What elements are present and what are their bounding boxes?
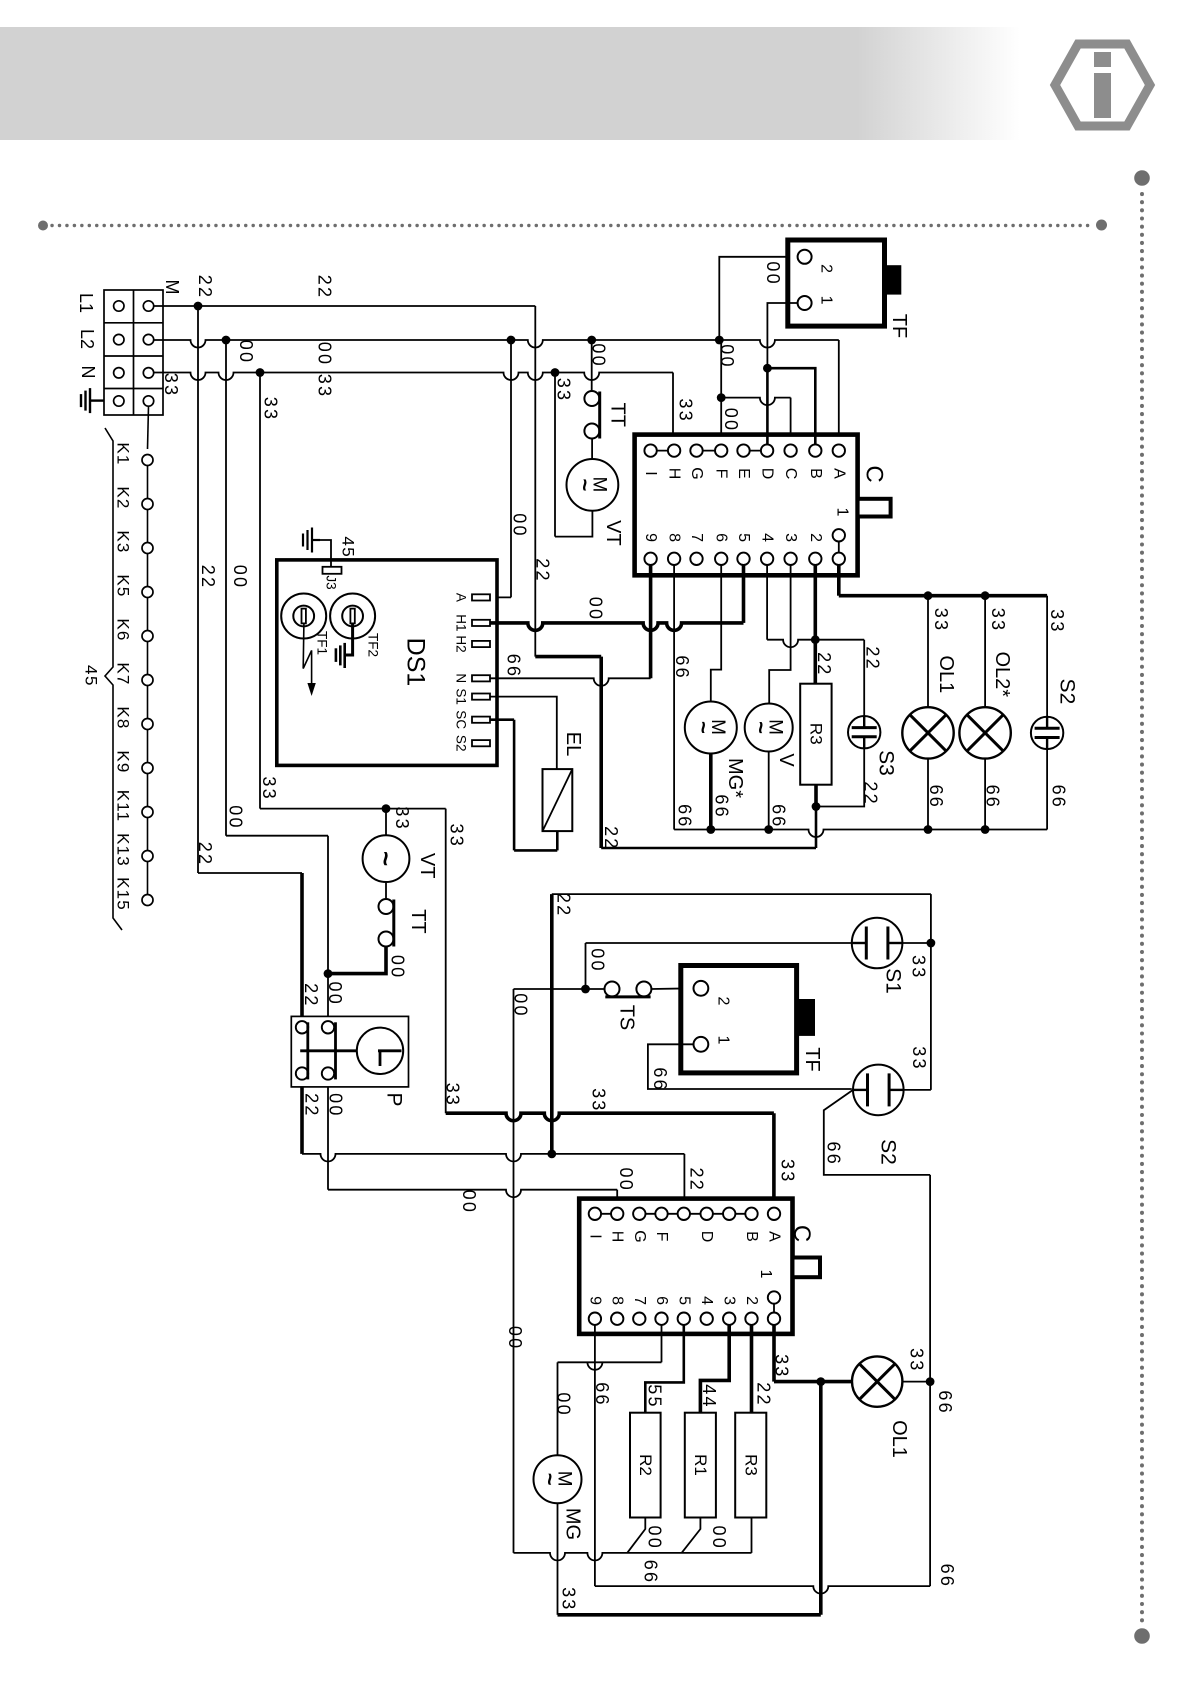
junction 33 bottom: [816, 1377, 825, 1386]
DS1 pin SC: [472, 717, 490, 723]
svg-text:6: 6: [713, 533, 730, 542]
svg-text:R2: R2: [636, 1454, 655, 1476]
wire 33 bus bottom: [558, 1613, 821, 1617]
TF1 discharge arrow: [303, 623, 311, 683]
svg-text:V: V: [775, 753, 797, 767]
svg-text:2: 2: [807, 533, 824, 542]
header gray gradient bar: [0, 27, 1020, 140]
svg-text:R3: R3: [741, 1454, 760, 1476]
wire MG* bottom: [709, 754, 713, 830]
P diaphragm: [357, 1028, 403, 1074]
svg-text:8: 8: [609, 1296, 626, 1305]
svg-text:H2: H2: [454, 635, 469, 652]
thermal fuse TF2 keyhole: [330, 594, 375, 639]
svg-text:A: A: [830, 468, 847, 479]
capacitor S2 top: [1031, 717, 1063, 749]
junction 00 a: [222, 336, 231, 345]
svg-text:33: 33: [261, 397, 281, 421]
junction pin F: [717, 393, 726, 402]
wire TT2 to junction: [328, 947, 386, 974]
DS1 pin S2: [472, 740, 490, 746]
svg-text:22: 22: [863, 646, 883, 670]
svg-text:44: 44: [699, 1384, 719, 1408]
svg-text:00: 00: [763, 261, 783, 285]
svg-text:S2: S2: [877, 1139, 900, 1165]
R1 diagonal: [682, 1518, 701, 1553]
svg-text:66: 66: [504, 654, 524, 678]
K chain contacts K1-K15: [142, 455, 153, 466]
junction 66 MG*: [706, 825, 715, 834]
TF2 pin 2: [694, 981, 709, 996]
svg-text:66: 66: [937, 1564, 957, 1588]
svg-text:B: B: [743, 1231, 760, 1242]
wire pin9-2 down: [594, 1325, 596, 1586]
TF pin 1: [798, 296, 812, 310]
svg-text:33: 33: [554, 378, 574, 402]
svg-text:66: 66: [824, 1141, 844, 1165]
wire 22 to P: [198, 872, 302, 874]
thermal fuse TF1 keyhole: [281, 594, 326, 639]
svg-text:00: 00: [459, 1190, 479, 1214]
svg-text:00: 00: [230, 565, 250, 589]
wire VT to 33: [555, 511, 592, 537]
junction pin2 pin4: [811, 635, 820, 644]
wire 00 branch pin F: [720, 340, 722, 445]
wire 22 to pinD2: [302, 1154, 684, 1162]
ground symbol at terminal: [90, 399, 104, 401]
svg-text:2: 2: [743, 1296, 760, 1305]
svg-text:C: C: [788, 1225, 815, 1242]
svg-text:66: 66: [712, 794, 732, 818]
svg-text:33: 33: [443, 1083, 463, 1107]
motor VT: [567, 459, 619, 511]
svg-text:33: 33: [259, 776, 279, 800]
svg-text:OL1: OL1: [935, 655, 957, 693]
junction R3 bottom: [812, 802, 821, 811]
motor MG*: [685, 702, 737, 754]
svg-text:C: C: [782, 468, 799, 480]
wire OL1b right: [902, 1381, 930, 1383]
svg-text:K13: K13: [114, 833, 133, 867]
wire pin8 down: [673, 565, 675, 830]
wire pin4 to S3: [766, 565, 768, 640]
svg-text:S2: S2: [1056, 679, 1079, 705]
wire OL2 col: [984, 596, 986, 708]
wire 00 long drop: [513, 989, 515, 1553]
svg-text:TF: TF: [801, 1047, 823, 1071]
svg-text:SC: SC: [454, 710, 469, 729]
wire S2m 66 path: [824, 1090, 930, 1175]
wire 66 bus bottom: [595, 1586, 930, 1594]
svg-text:F: F: [653, 1232, 670, 1242]
wire 22 drop right: [534, 306, 536, 657]
timer DS1 box: [277, 560, 497, 766]
motor MG: [534, 1455, 582, 1503]
svg-text:L1: L1: [76, 293, 96, 313]
svg-text:66: 66: [641, 1560, 661, 1584]
svg-text:66: 66: [672, 655, 692, 679]
svg-text:33: 33: [447, 823, 467, 847]
connector C2 tab: [793, 1258, 821, 1278]
svg-text:66: 66: [769, 804, 789, 828]
svg-text:66: 66: [983, 785, 1003, 809]
svg-text:M: M: [162, 280, 182, 295]
svg-text:33: 33: [909, 1046, 929, 1070]
pressure switch P box: [291, 1016, 408, 1087]
thermal cutout TT2: [379, 899, 394, 914]
svg-text:TF: TF: [888, 314, 910, 338]
connector C1 body: [635, 435, 858, 576]
svg-text:22: 22: [861, 781, 881, 805]
svg-text:2: 2: [818, 264, 835, 273]
svg-text:TT: TT: [407, 909, 429, 933]
svg-text:OL1: OL1: [888, 1420, 910, 1458]
svg-text:66: 66: [675, 804, 695, 828]
svg-text:K8: K8: [114, 706, 133, 729]
wire 33 to pin H: [672, 373, 674, 445]
junction 00 b: [507, 336, 516, 345]
junction 00 c: [587, 336, 596, 345]
heater EL: [543, 769, 573, 831]
svg-text:K11: K11: [114, 790, 133, 823]
svg-text:OL2*: OL2*: [991, 652, 1013, 698]
wire R3 bottom stub: [814, 785, 818, 807]
lamp OL1: [902, 707, 953, 758]
wire MG bottom: [557, 1503, 559, 1615]
wire S1 right link: [902, 942, 931, 944]
connector C1 tab: [858, 499, 891, 517]
wire pin2 to R3: [813, 565, 817, 684]
svg-text:1: 1: [715, 1036, 732, 1045]
wire VT2 to TT2: [385, 882, 387, 899]
svg-text:22: 22: [532, 558, 552, 582]
svg-text:33: 33: [909, 955, 929, 979]
info icon hexagon: [1055, 44, 1150, 126]
resistor R1: [685, 1413, 716, 1518]
junction 22: [194, 302, 203, 311]
junction 66 OL1: [924, 825, 933, 834]
junction 33 b: [551, 368, 560, 377]
C1 links: [651, 450, 675, 452]
wire 22 left drop: [197, 306, 199, 873]
wire pin1 to OL1b: [772, 1325, 776, 1382]
svg-text:00: 00: [709, 1525, 729, 1549]
svg-text:K5: K5: [114, 574, 133, 597]
svg-text:66: 66: [935, 1390, 955, 1414]
DS1 pin S1: [472, 694, 490, 700]
svg-text:00: 00: [721, 408, 741, 432]
DS1 pin A: [472, 594, 490, 600]
svg-text:00: 00: [717, 344, 737, 368]
svg-text:45: 45: [82, 665, 101, 687]
svg-text:7: 7: [688, 533, 705, 542]
motor V: [745, 704, 793, 752]
svg-text:4: 4: [698, 1296, 715, 1305]
DS1 pin H1: [472, 620, 490, 626]
svg-text:C: C: [861, 465, 888, 482]
wire SC to EL loop: [490, 718, 514, 721]
wire terminal to K1: [148, 406, 149, 449]
wire 22 riser mid: [550, 894, 554, 1154]
wire TT to VT: [591, 439, 593, 460]
wire pin6 to MG: [661, 1325, 663, 1362]
svg-text:45: 45: [339, 536, 358, 558]
svg-text:9: 9: [586, 1296, 603, 1305]
junction S1 right: [927, 939, 936, 948]
svg-text:33: 33: [778, 1159, 798, 1183]
resistor R3 bottom: [735, 1413, 766, 1518]
C2 links: [595, 1213, 617, 1215]
lamp OL2*: [959, 707, 1010, 758]
svg-text:00: 00: [554, 1392, 574, 1416]
wire 00 bus bottom: [514, 1553, 752, 1561]
svg-text:22: 22: [687, 1167, 707, 1191]
wire S1 left: [586, 942, 852, 944]
svg-text:22: 22: [301, 983, 321, 1007]
svg-text:EL: EL: [562, 732, 584, 756]
TF2 pin 1: [694, 1037, 709, 1052]
svg-text:33: 33: [988, 608, 1008, 632]
junction OL1 top: [924, 591, 933, 600]
junction 66 V: [764, 825, 773, 834]
wire P 22 out: [300, 1087, 304, 1154]
thermal switch TS: [605, 982, 620, 997]
DS1 pin N: [472, 675, 490, 681]
svg-text:22: 22: [754, 1382, 774, 1406]
svg-text:00: 00: [586, 597, 606, 621]
svg-text:22: 22: [302, 1093, 322, 1117]
capacitor S2 mid: [853, 1065, 904, 1116]
svg-text:22: 22: [554, 893, 574, 917]
svg-text:~: ~: [371, 851, 401, 866]
svg-text:33: 33: [772, 1354, 792, 1378]
svg-text:66: 66: [926, 785, 946, 809]
svg-text:~: ~: [749, 721, 774, 734]
svg-text:K9: K9: [114, 750, 133, 773]
svg-text:R1: R1: [691, 1454, 710, 1476]
lamp OL1 bottom: [852, 1356, 902, 1406]
svg-text:A: A: [766, 1231, 783, 1242]
svg-text:33: 33: [676, 398, 696, 422]
svg-text:00: 00: [510, 513, 530, 537]
motor VT2: [363, 835, 410, 882]
svg-text:~: ~: [538, 1473, 563, 1486]
C1 top pin circles: [644, 444, 656, 456]
wire 00 to TT: [591, 340, 593, 391]
svg-text:K15: K15: [114, 877, 133, 911]
horizontal dotted separator: [52, 224, 1092, 227]
svg-text:00: 00: [616, 1167, 636, 1191]
svg-text:00: 00: [315, 342, 335, 366]
svg-text:00: 00: [325, 981, 345, 1005]
svg-text:F: F: [713, 469, 730, 479]
wire 22 top mid: [552, 893, 931, 895]
wire 00 branch TF pin2: [719, 257, 798, 340]
svg-text:8: 8: [666, 533, 683, 542]
svg-text:L2: L2: [77, 329, 97, 349]
wire 33 down right: [445, 809, 447, 1114]
R3b bottom wire: [751, 1518, 753, 1553]
svg-text:MG: MG: [562, 1508, 584, 1540]
svg-text:E: E: [735, 468, 752, 479]
svg-text:G: G: [688, 467, 705, 479]
wire 00 branch pin C: [721, 398, 790, 406]
svg-text:22: 22: [814, 652, 834, 676]
wire P 00 out: [327, 1087, 329, 1190]
wire 33 drop bottom: [819, 1382, 823, 1615]
wire OL2 bottom: [984, 759, 986, 830]
wire 33 left drop: [259, 373, 261, 809]
svg-text:33: 33: [931, 608, 951, 632]
wire 33 thick run: [446, 1113, 774, 1121]
wire TF2 pin1 66: [648, 1044, 852, 1089]
svg-text:B: B: [807, 468, 824, 479]
wire OL1 col: [927, 596, 929, 708]
wire pin6 to MG*: [711, 565, 721, 702]
capacitor S1: [852, 918, 903, 969]
wire TF1 to pins B D: [767, 303, 798, 368]
resistor R3: [800, 684, 831, 785]
wire 00 to P col: [226, 835, 328, 837]
svg-text:N: N: [454, 673, 469, 683]
svg-text:I: I: [642, 471, 659, 475]
svg-text:~: ~: [691, 721, 716, 734]
svg-text:G: G: [631, 1230, 648, 1242]
svg-text:00: 00: [226, 805, 246, 829]
svg-text:3: 3: [721, 1296, 738, 1305]
svg-text:00: 00: [588, 948, 608, 972]
svg-text:TF1: TF1: [315, 631, 330, 655]
svg-text:33: 33: [161, 373, 181, 397]
svg-text:33: 33: [392, 806, 412, 830]
svg-text:9: 9: [642, 533, 659, 542]
svg-text:~: ~: [572, 478, 597, 491]
svg-text:5: 5: [735, 533, 752, 542]
wire 33 terminal row: [154, 373, 674, 381]
svg-text:3: 3: [782, 533, 799, 542]
svg-text:5: 5: [675, 1296, 692, 1305]
junction VT2 top: [382, 804, 391, 813]
wire 00 branch DS1-A: [510, 340, 512, 597]
svg-text:4: 4: [759, 533, 776, 542]
wire N to pin9: [490, 678, 651, 686]
svg-text:I: I: [586, 1234, 603, 1238]
svg-text:TF2: TF2: [366, 633, 381, 657]
svg-text:D: D: [698, 1231, 715, 1243]
svg-text:1: 1: [818, 296, 835, 305]
svg-text:00: 00: [236, 340, 256, 364]
wire V bottom: [768, 752, 770, 830]
svg-text:1: 1: [834, 508, 851, 517]
svg-text:K7: K7: [114, 662, 133, 685]
svg-text:33: 33: [559, 1587, 579, 1611]
DS1 pin H2: [472, 641, 490, 647]
connector C2 body: [579, 1199, 792, 1334]
thermal fuse TF box: [788, 240, 885, 326]
svg-text:R3: R3: [807, 723, 826, 745]
svg-text:S3: S3: [875, 750, 898, 776]
svg-text:66: 66: [650, 1067, 670, 1091]
wire 22 to DS1 area: [535, 655, 601, 659]
svg-text:A: A: [454, 593, 469, 602]
thermal fuse TF2 box: [681, 966, 797, 1073]
svg-text:TT: TT: [607, 402, 629, 426]
svg-text:J3: J3: [324, 575, 339, 589]
C1 bottom pin circles: [644, 553, 656, 565]
svg-text:22: 22: [315, 275, 335, 299]
svg-text:K3: K3: [114, 530, 133, 553]
wire OL1 bottom: [927, 759, 929, 830]
wire S1 to EL: [490, 697, 557, 770]
svg-text:VT: VT: [416, 853, 438, 879]
wire TS to TF2 pin2: [651, 987, 693, 990]
wire 66 right drop: [929, 1382, 931, 1587]
svg-text:K6: K6: [114, 618, 133, 641]
wire 00 terminal row: [154, 340, 839, 348]
svg-text:00: 00: [505, 1326, 525, 1350]
wire TS feed: [514, 988, 605, 990]
wire pin3 to R1: [700, 1325, 729, 1413]
svg-text:S1: S1: [454, 688, 469, 705]
junction 66 OL2: [981, 825, 990, 834]
svg-text:K2: K2: [114, 486, 133, 509]
wire 00 left drop: [225, 340, 227, 836]
wire S2m right link: [904, 1089, 931, 1091]
svg-text:TS: TS: [616, 1005, 638, 1031]
terminal block M: [104, 290, 163, 415]
svg-text:6: 6: [653, 1296, 670, 1305]
junction 00 d: [715, 336, 724, 345]
junction 33 a: [256, 368, 265, 377]
svg-text:H: H: [666, 468, 683, 480]
svg-text:VT: VT: [602, 520, 624, 546]
wire H1 to pin5: [490, 623, 744, 631]
svg-text:H1: H1: [454, 614, 469, 631]
svg-text:22: 22: [198, 565, 218, 589]
junction OL2 top: [981, 591, 990, 600]
junction 22 mid: [547, 1150, 556, 1159]
R2 diagonal: [627, 1518, 645, 1553]
wire pin5 to R2: [645, 1325, 684, 1413]
svg-text:H: H: [609, 1231, 626, 1243]
C2 bottom pin circles: [589, 1313, 601, 1325]
wire 00 to pinH2: [328, 1190, 617, 1198]
svg-text:1: 1: [757, 1270, 774, 1279]
junction above P: [324, 969, 333, 978]
wire pin3 to V: [769, 565, 790, 704]
svg-text:2: 2: [715, 997, 732, 1006]
wire 33 mid run: [260, 808, 446, 810]
svg-text:22: 22: [195, 842, 215, 866]
wire 22 rise to R3: [815, 807, 818, 849]
ground at J3: [312, 539, 320, 541]
capacitor S3: [848, 716, 880, 748]
junction 66 right: [926, 1377, 935, 1386]
junction TS: [581, 985, 590, 994]
svg-text:S2: S2: [454, 735, 469, 752]
wire 22 bottom jog: [601, 847, 816, 850]
svg-text:P: P: [383, 1092, 406, 1106]
svg-text:K1: K1: [114, 442, 133, 465]
svg-text:66: 66: [592, 1382, 612, 1406]
C2 top pin circles: [589, 1208, 601, 1220]
wire 33 to VT2: [385, 809, 387, 836]
svg-text:66: 66: [1049, 785, 1069, 809]
junction TF1 wire: [763, 364, 772, 373]
wire pin2 to R3b: [750, 1325, 754, 1413]
wire 22 down: [599, 657, 603, 848]
wire S2t bottom: [1046, 749, 1048, 829]
